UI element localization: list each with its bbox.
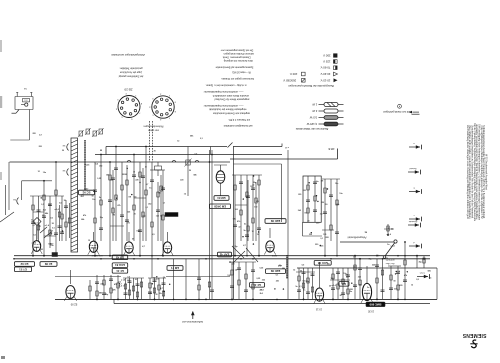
detector components <box>232 175 262 257</box>
tube V6 EZ80 <box>64 270 77 306</box>
svg-text:12: 12 <box>257 234 259 236</box>
svg-text:12: 12 <box>252 231 254 233</box>
black component 2 <box>52 253 58 257</box>
svg-text:220: 220 <box>33 133 36 135</box>
svg-text:auf Genauigkeit verdrahtet: auf Genauigkeit verdrahtet <box>223 124 252 127</box>
svg-text:0,1: 0,1 <box>33 235 36 237</box>
V7 label box <box>250 283 265 288</box>
svg-text:50: 50 <box>325 204 327 206</box>
svg-text:4,7: 4,7 <box>243 244 246 247</box>
scan mark 1 <box>0 40 2 52</box>
tube V7 EL95 <box>314 262 325 311</box>
tube V8 EL84 <box>361 266 373 303</box>
dial lamp <box>155 162 162 176</box>
svg-text:50: 50 <box>64 200 66 202</box>
svg-text:12: 12 <box>184 193 186 195</box>
svg-text:100: 100 <box>124 174 127 176</box>
coil L2 <box>84 140 86 190</box>
svg-text:sehenen Punkte sind gegen: sehenen Punkte sind gegen <box>223 52 254 55</box>
svg-text:2k2: 2k2 <box>262 280 265 282</box>
wire stub <box>210 147 212 155</box>
bus AVC line <box>106 143 282 155</box>
svg-text:1M: 1M <box>128 197 131 199</box>
svg-text:100: 100 <box>254 206 257 208</box>
svg-text:12: 12 <box>252 184 254 186</box>
IF stage components <box>108 146 165 257</box>
bus ground line <box>14 258 430 260</box>
svg-text:125: 125 <box>359 285 362 287</box>
svg-text:20: 20 <box>327 264 329 266</box>
bracket Lu2 <box>62 169 68 176</box>
svg-text:0,1: 0,1 <box>320 238 323 240</box>
svg-text:0,5: 0,5 <box>127 276 130 278</box>
svg-text:EF 41: EF 41 <box>116 269 124 273</box>
svg-text:0,5: 0,5 <box>158 193 161 195</box>
svg-text:220: 220 <box>309 234 312 236</box>
svg-text:1M: 1M <box>321 181 324 183</box>
svg-text:220: 220 <box>399 285 402 287</box>
svg-text:angebaut wie Geräte-Konstrukti: angebaut wie Geräte-Konstruktion <box>212 111 250 114</box>
svg-text:2k2: 2k2 <box>148 204 151 206</box>
svg-text:12: 12 <box>133 171 135 173</box>
bracket Lu1 <box>62 144 68 151</box>
svg-text:0,5: 0,5 <box>429 277 432 279</box>
V2 label box <box>40 262 57 267</box>
alignment note <box>383 104 419 114</box>
svg-text:4,7: 4,7 <box>239 225 242 228</box>
svg-text:ohne Antenne mit eingereg.: ohne Antenne mit eingereg. <box>223 59 253 62</box>
svg-text:SIEMENS: SIEMENS <box>462 332 486 338</box>
svg-text:1M: 1M <box>320 213 323 215</box>
svg-text:20: 20 <box>62 150 64 152</box>
black component <box>165 213 178 217</box>
svg-text:0,125 W: 0,125 W <box>306 122 317 126</box>
svg-text:2k2: 2k2 <box>43 209 46 211</box>
off-page arrow 6 <box>409 241 422 248</box>
svg-text:468 B: 468 B <box>328 147 334 149</box>
diagonal connectors <box>232 246 258 263</box>
svg-text:12: 12 <box>411 285 413 287</box>
svg-text:0,1: 0,1 <box>299 286 302 288</box>
svg-text:220: 220 <box>372 265 375 267</box>
wire from S1 <box>10 110 29 141</box>
socket caption <box>143 125 163 132</box>
tube V2 EF89 <box>88 232 103 256</box>
svg-text:4,7: 4,7 <box>86 187 89 190</box>
svg-text:EM 71: EM 71 <box>171 266 180 270</box>
svg-text:20: 20 <box>307 221 309 223</box>
V5 label box <box>314 261 331 266</box>
svg-text:Die mit Spannungswerten ver-: Die mit Spannungswerten ver- <box>220 49 253 52</box>
trimmer T2 <box>185 147 192 197</box>
Siemens S emblem <box>470 340 477 348</box>
svg-text:mit Toleranz ± 2,5%: mit Toleranz ± 2,5% <box>228 118 250 121</box>
svg-text:20: 20 <box>163 277 165 279</box>
off-page arrow 7 <box>417 272 430 279</box>
svg-text:Ein / Aus: Ein / Aus <box>385 262 395 265</box>
svg-text:220: 220 <box>358 277 361 279</box>
svg-text:a: richtig – unterstrichen bei: a: richtig – unterstrichen bei n. Spann. <box>205 83 246 86</box>
svg-text:—— unterbrochene Kapazitätswer: —— unterbrochene Kapazitätswerte: <box>203 104 243 107</box>
svg-text:220: 220 <box>385 258 388 260</box>
svg-text:0,5: 0,5 <box>50 217 53 219</box>
svg-text:4,7: 4,7 <box>146 183 149 186</box>
V1 label box b <box>15 267 32 272</box>
svg-text:—— unterbrochene Kapazitätswer: —— unterbrochene Kapazitätswerte: <box>203 90 243 93</box>
svg-text:100: 100 <box>331 278 334 280</box>
svg-text:20: 20 <box>156 294 158 296</box>
svg-text:EBF 89: EBF 89 <box>270 269 280 273</box>
svg-text:220: 220 <box>303 190 306 192</box>
svg-text:0,25: 0,25 <box>260 267 264 269</box>
svg-text:ZB 20: ZB 20 <box>124 88 132 92</box>
svg-text:220: 220 <box>350 289 353 291</box>
svg-text:220: 220 <box>321 202 324 204</box>
bus output line <box>297 267 437 269</box>
svg-text:4,7: 4,7 <box>50 230 53 233</box>
svg-text:220: 220 <box>316 223 319 225</box>
svg-text:0,5: 0,5 <box>256 201 259 203</box>
tuning indicator tube EM34 <box>214 165 227 196</box>
bus anode line <box>230 147 338 159</box>
socket leads dashed <box>150 121 153 162</box>
off-page arrow 1 <box>409 142 422 149</box>
svg-text:Ri ~ etwa 10 MΩ.: Ri ~ etwa 10 MΩ. <box>231 71 250 74</box>
annotation text block <box>203 49 254 127</box>
svg-text:50: 50 <box>132 239 134 241</box>
svg-text:0,1: 0,1 <box>41 204 44 206</box>
mains switch <box>383 240 397 265</box>
svg-text:EC 92: EC 92 <box>20 262 28 266</box>
svg-text:220: 220 <box>298 194 301 196</box>
svg-text:EZ: EZ <box>342 282 346 286</box>
svg-text:EF 89: EF 89 <box>44 262 52 266</box>
svg-text:220: 220 <box>276 281 279 283</box>
svg-text:EM 34/35: EM 34/35 <box>214 204 226 208</box>
EM34 label box <box>214 196 229 201</box>
component value labels <box>31 133 431 297</box>
V4 label box 2 <box>266 269 286 274</box>
svg-text:eingebaute Wärme der Induktivi: eingebaute Wärme der Induktivität <box>209 108 246 111</box>
partial label box <box>339 282 349 287</box>
tube V4 EBF89 <box>264 228 277 256</box>
svg-text:250 V.: 250 V. <box>322 54 330 58</box>
svg-text:12: 12 <box>163 203 165 205</box>
svg-text:20-30 V.: 20-30 V. <box>320 72 331 76</box>
double wire components <box>185 278 214 300</box>
svg-text:bei Stahlröhren gezeigt: bei Stahlröhren gezeigt <box>118 75 143 78</box>
svg-text:100: 100 <box>227 275 230 277</box>
wire riser A <box>234 150 289 299</box>
scan mark 3 <box>0 172 2 180</box>
svg-text:BMC 600: BMC 600 <box>369 302 381 306</box>
svg-text:EF 41: EF 41 <box>253 283 261 287</box>
svg-text:100: 100 <box>50 243 53 245</box>
svg-text:0,5: 0,5 <box>302 264 305 266</box>
svg-text:0,5: 0,5 <box>416 279 419 281</box>
svg-text:0,5: 0,5 <box>152 234 155 236</box>
svg-text:angepasste Werte für Gleichlau: angepasste Werte für Gleichlauf <box>214 98 249 101</box>
svg-text:50: 50 <box>52 223 54 225</box>
svg-text:2k2: 2k2 <box>298 210 301 212</box>
tube V3 ECH81 <box>123 232 134 256</box>
off-page arrow 2 <box>408 167 421 174</box>
off-page arrow 4 <box>409 214 422 221</box>
voltage legend <box>283 54 338 89</box>
svg-text:12: 12 <box>42 215 44 217</box>
svg-text:0,1: 0,1 <box>38 226 41 228</box>
svg-text:20: 20 <box>340 295 342 297</box>
EM34 label box 2 <box>210 204 231 209</box>
svg-text:12: 12 <box>123 286 125 288</box>
svg-text:EM 34: EM 34 <box>217 196 226 200</box>
trimmer cluster <box>78 128 104 137</box>
svg-text:220: 220 <box>100 284 103 286</box>
diamond mixer <box>33 218 41 240</box>
svg-text:12: 12 <box>38 171 40 173</box>
svg-text:EZ 80: EZ 80 <box>70 303 77 306</box>
svg-text:0,25: 0,25 <box>86 164 90 166</box>
scan mark 2 <box>0 96 2 108</box>
svg-text:ECH 81: ECH 81 <box>115 263 125 267</box>
svg-text:1M: 1M <box>304 213 307 215</box>
off-page arrow 5 <box>408 220 421 227</box>
coupling label box <box>79 190 95 195</box>
svg-text:220: 220 <box>39 146 42 148</box>
svg-text:0,25: 0,25 <box>97 178 101 180</box>
svg-text:Außenantennen-erd.: Außenantennen-erd. <box>182 320 203 323</box>
svg-text:Fahrgestellkontakt: Fahrgestellkontakt <box>347 236 366 239</box>
svg-text:EY 51: EY 51 <box>19 267 27 271</box>
svg-text:20: 20 <box>346 277 348 279</box>
svg-text:0,25: 0,25 <box>257 278 261 280</box>
bus bottom line <box>55 299 437 303</box>
svg-text:0,5: 0,5 <box>59 203 62 205</box>
junction dots scatter <box>41 150 409 293</box>
svg-text:125: 125 <box>250 186 253 188</box>
svg-text:100 V.: 100 V. <box>289 72 297 76</box>
footer text column <box>466 123 488 222</box>
svg-text:1M: 1M <box>106 175 109 177</box>
resistor legend <box>295 103 343 132</box>
svg-text:220: 220 <box>315 244 318 246</box>
extra IF columns <box>111 165 257 241</box>
svg-text:Netztrafo: Netztrafo <box>408 220 417 223</box>
bus HT double line <box>14 255 430 257</box>
svg-text:12: 12 <box>88 240 90 242</box>
svg-text:0,1: 0,1 <box>145 207 148 209</box>
svg-text:0,1: 0,1 <box>52 228 55 230</box>
svg-text:0,5: 0,5 <box>195 154 198 156</box>
svg-text:19 13: 19 13 <box>315 308 322 311</box>
input stage components <box>30 154 103 257</box>
svg-text:2k2: 2k2 <box>260 293 263 295</box>
svg-text:2k2: 2k2 <box>110 180 113 182</box>
svg-text:Ltspr.: Ltspr. <box>419 272 425 275</box>
svg-text:Chassis gemessen. Gerät: Chassis gemessen. Gerät <box>223 56 251 59</box>
svg-text:4 W: 4 W <box>312 109 317 113</box>
svg-text:12: 12 <box>177 141 179 143</box>
svg-text:20: 20 <box>134 213 136 215</box>
bottom left components <box>55 275 230 300</box>
svg-text:EBF 89: EBF 89 <box>270 219 280 223</box>
switch aux components <box>384 224 394 236</box>
svg-text:100: 100 <box>235 209 238 211</box>
svg-text:20: 20 <box>135 279 137 281</box>
V3 label boxes <box>112 255 128 273</box>
svg-text:220: 220 <box>326 237 329 239</box>
svg-text:20: 20 <box>300 270 302 272</box>
svg-text:EAF 42: EAF 42 <box>219 253 229 257</box>
svg-text:50: 50 <box>82 195 84 197</box>
svg-text:125: 125 <box>323 234 326 236</box>
svg-text:50: 50 <box>394 281 396 283</box>
scan mark 4 <box>1 356 5 359</box>
svg-text:4,7: 4,7 <box>39 133 42 136</box>
off-page arrow 3 <box>409 187 422 194</box>
svg-text:ECC 85: ECC 85 <box>317 261 327 265</box>
tube V1 EC92 <box>31 226 42 254</box>
svg-text:220: 220 <box>180 179 183 181</box>
svg-text:0,5 W: 0,5 W <box>309 116 317 120</box>
pickup connector switch S1 <box>12 87 34 113</box>
svg-text:260/265 V.: 260/265 V. <box>283 78 296 82</box>
svg-text:70-80 V.: 70-80 V. <box>320 66 331 70</box>
bus end mark <box>282 144 289 148</box>
svg-text:1M: 1M <box>365 232 368 234</box>
svg-text:12: 12 <box>293 269 295 271</box>
svg-text:220: 220 <box>135 179 138 181</box>
svg-text:125: 125 <box>156 216 159 218</box>
svg-text:0,1: 0,1 <box>35 222 38 224</box>
svg-text:W 52 Druckvermerk Ausgabe West: W 52 Druckvermerk Ausgabe West <box>485 154 488 190</box>
svg-text:mit zum Gerät gehörigem: mit zum Gerät gehörigem <box>383 110 410 113</box>
right IF components <box>303 179 341 257</box>
svg-text:125 V.: 125 V. <box>322 60 330 64</box>
svg-text:0,1: 0,1 <box>276 275 279 277</box>
wire left L <box>22 181 52 200</box>
svg-text:0,5: 0,5 <box>95 164 98 166</box>
svg-text:220: 220 <box>231 264 234 266</box>
svg-text:1M: 1M <box>50 233 53 235</box>
svg-text:1M: 1M <box>112 215 115 217</box>
svg-text:50: 50 <box>189 170 191 172</box>
output stage components <box>296 268 350 300</box>
V3b label box <box>167 266 183 271</box>
svg-text:100: 100 <box>48 205 51 207</box>
svg-text:einzelne Werte stark veränderl: einzelne Werte stark veränderlich <box>212 94 249 97</box>
wire hop marks <box>127 160 199 162</box>
V4 label box <box>265 219 286 224</box>
svg-text:Lage der Anschlüsse: Lage der Anschlüsse <box>119 71 142 74</box>
power components <box>353 241 437 300</box>
tube socket top view A <box>115 92 142 119</box>
svg-text:220: 220 <box>127 280 130 282</box>
svg-text:19 20: 19 20 <box>367 310 374 313</box>
svg-text:Bauformen der Widerstände: Bauformen der Widerstände <box>295 127 328 131</box>
svg-text:gestrichelte Teilbilder:: gestrichelte Teilbilder: <box>119 67 142 70</box>
ratio detector box <box>303 176 321 222</box>
svg-text:Spannungswerte auf Bereichsmit: Spannungswerte auf Bereichsmitte <box>215 65 253 68</box>
tube V3b EAF42 <box>162 232 173 256</box>
svg-text:10-15 V.: 10-15 V. <box>320 78 331 82</box>
svg-text:Bezugspunkte der Betriebsspann: Bezugspunkte der Betriebsspannungen <box>288 84 334 88</box>
double wire <box>209 150 213 299</box>
svg-text:Netzteil: Netzteil <box>409 167 416 170</box>
svg-text:20: 20 <box>154 151 156 153</box>
bus heater line <box>10 161 231 163</box>
svg-text:20: 20 <box>260 290 262 292</box>
svg-text:Röhrenfassungen: Röhrenfassungen <box>143 125 163 128</box>
antenna arrow <box>182 311 203 323</box>
svg-text:2M08: 2M08 <box>271 254 277 256</box>
svg-text:Zubringerleitungen verschieden: Zubringerleitungen verschieden <box>111 53 146 56</box>
svg-text:0,1: 0,1 <box>200 138 203 140</box>
svg-text:DM 2685/2: DM 2685/2 <box>91 254 102 256</box>
AF driver components <box>229 262 256 300</box>
switch contacts K1 <box>40 227 51 238</box>
svg-text:125: 125 <box>148 293 151 295</box>
bus mains line <box>340 236 394 242</box>
left edge wires <box>6 162 10 215</box>
svg-text:2k2: 2k2 <box>99 166 102 168</box>
svg-text:1M: 1M <box>40 249 43 251</box>
left bracket input <box>0 198 19 223</box>
V1 label box <box>15 262 35 267</box>
IF transformer coil <box>286 255 288 278</box>
svg-text:125: 125 <box>127 211 130 213</box>
svg-text:125: 125 <box>345 274 348 276</box>
svg-text:4,7: 4,7 <box>160 287 163 290</box>
V8 dark label <box>366 302 385 307</box>
ferrite antenna coil L1 <box>71 138 78 252</box>
EAF box <box>218 252 232 257</box>
note block dashed portrayal <box>118 67 143 78</box>
svg-text:4,7: 4,7 <box>142 245 145 248</box>
svg-text:12: 12 <box>388 227 390 229</box>
svg-text:1 W: 1 W <box>312 103 317 107</box>
bus screen line <box>95 154 282 156</box>
bus junction dots <box>13 255 425 300</box>
svg-text:Gemessen gegen ein Chassis.: Gemessen gegen ein Chassis. <box>221 77 255 80</box>
tube socket top view B <box>148 92 175 120</box>
svg-text:100: 100 <box>136 230 139 232</box>
bottom mid components <box>148 256 199 301</box>
svg-text:von unten: von unten <box>147 128 159 131</box>
svg-text:0,5: 0,5 <box>156 278 159 280</box>
long wire x233 <box>233 147 235 300</box>
